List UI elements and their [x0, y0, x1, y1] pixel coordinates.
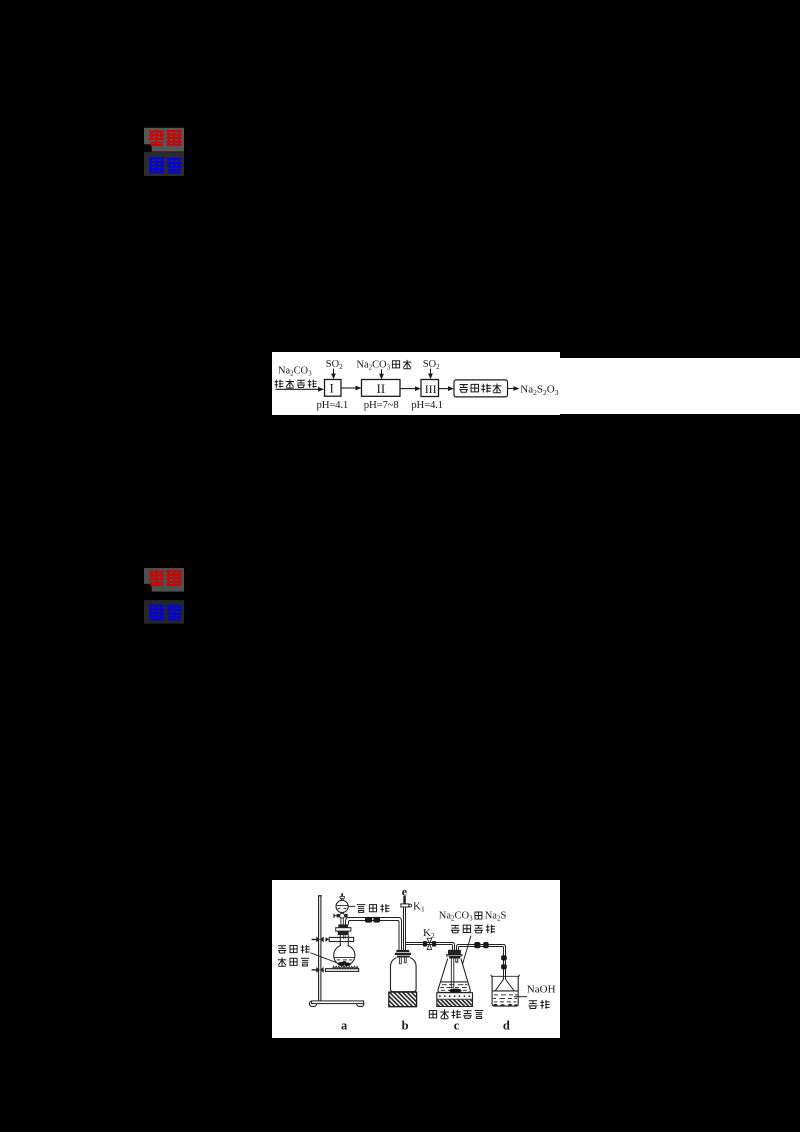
K1 knob — [409, 904, 412, 907]
clamp 1 wedge — [326, 937, 330, 942]
magnetic stirrer box — [437, 993, 473, 1007]
SO2 down arrow 1 — [331, 369, 336, 380]
clamp 1 stub — [312, 939, 318, 941]
svg-text:d: d — [503, 1019, 510, 1033]
answer badge A1 (red) — [144, 128, 184, 152]
flask a neck — [340, 935, 348, 946]
sodium sulfite solid in flask — [338, 961, 351, 966]
beads on outlet tube — [474, 942, 489, 948]
funnel stopcock — [333, 913, 347, 918]
arrow III to crystallize box — [439, 386, 455, 391]
svg-text:pH=4.1: pH=4.1 — [411, 399, 443, 411]
flask a stopper — [336, 924, 351, 935]
dropping funnel bulb — [336, 900, 348, 912]
iron stand base bar — [312, 1001, 364, 1004]
apparatus panel — [272, 880, 560, 1038]
clamp 1 bowtie — [316, 937, 323, 943]
svg-text:c: c — [454, 1019, 460, 1033]
crystallization-dehydration box — [454, 380, 508, 397]
K2 valve bowtie — [427, 938, 432, 949]
arrow I to II — [341, 386, 362, 391]
beaker sediment marks — [494, 1004, 518, 1006]
e tube down to bottle — [404, 907, 406, 951]
svg-text:NaOH: NaOH — [527, 983, 556, 995]
flask c liquid — [440, 982, 467, 990]
bottle b stopper — [395, 950, 411, 958]
feed arrow into box I — [276, 387, 325, 392]
SO2 down arrow 2 — [428, 369, 433, 380]
svg-text:Na2CO3: Na2CO3 — [439, 911, 473, 923]
K1 plug stem — [403, 896, 406, 904]
NaOH pointer line — [514, 996, 527, 998]
beaker d — [490, 975, 520, 1006]
beaker d liquid — [492, 991, 518, 1002]
svg-text:b: b — [402, 1019, 409, 1033]
K1 stopcock bar — [401, 904, 409, 907]
label sodium-sulfite line2 — [278, 957, 309, 966]
gauze sawtooth — [332, 966, 358, 969]
arrow II to III — [400, 386, 421, 391]
K2 valve beads — [423, 941, 436, 947]
clamp 2 bowtie — [316, 967, 323, 973]
box I — [325, 380, 342, 397]
flask c stopper — [447, 950, 462, 959]
bottle b tube stubs — [399, 958, 406, 964]
label Na2CO3 saturated solution — [274, 365, 316, 388]
conc-sulfuric-acid label — [357, 904, 389, 912]
long tube into liquid — [451, 958, 454, 987]
pointer to flask solid — [311, 953, 342, 965]
svg-text:pH=7~8: pH=7~8 — [364, 399, 399, 411]
analysis badge B2 (blue) — [144, 600, 184, 624]
iron stand right foot — [357, 1001, 364, 1006]
gauze plate — [326, 969, 359, 972]
clamp 1 bar — [329, 937, 353, 941]
anti-suckback funnel — [495, 979, 514, 990]
bottle b body — [391, 958, 417, 992]
tube connector beads — [365, 917, 380, 923]
stirrer label — [429, 1010, 483, 1019]
Na2CO3 down arrow — [379, 369, 384, 379]
mixed solution label — [439, 911, 507, 934]
dropping funnel knob — [340, 893, 345, 901]
iron stand rod — [318, 896, 322, 1001]
svg-text:I: I — [330, 381, 334, 396]
stir bar — [449, 989, 461, 993]
svg-text:pH=4.1: pH=4.1 — [317, 399, 349, 411]
analysis badge B1 (blue) — [144, 152, 184, 176]
flowchart panel — [272, 352, 800, 415]
funnel liquid line — [336, 906, 348, 909]
arrow to product — [508, 386, 520, 391]
pointer into flask c — [456, 936, 471, 987]
flask c outlet tube to beaker — [457, 945, 506, 980]
K2 branch tube to flask c — [406, 943, 455, 951]
flask a liquid — [335, 957, 355, 960]
clamp 2 stub — [312, 969, 318, 971]
svg-text:Na2S2O3: Na2S2O3 — [520, 384, 558, 397]
label Na2CO3 solid — [357, 359, 412, 371]
beads on beaker downtube — [501, 955, 507, 969]
round-bottom flask a — [334, 945, 355, 966]
label sodium-sulfite line1 — [278, 945, 310, 953]
svg-text:a: a — [341, 1019, 348, 1033]
svg-text:III: III — [425, 382, 437, 396]
answer badge A2 (red) — [144, 568, 184, 592]
flask a delivery tube — [346, 918, 402, 951]
iron stand left foot — [310, 1001, 317, 1006]
conc-sulfuric-acid label line — [348, 905, 355, 907]
svg-text:II: II — [377, 381, 386, 396]
svg-text:Na2S: Na2S — [485, 911, 507, 923]
flask a neck-join erase — [341, 944, 348, 948]
flask c cone — [438, 959, 471, 993]
funnel stem to stopper — [341, 918, 343, 925]
box III — [421, 380, 439, 397]
svg-text:Na2CO3: Na2CO3 — [278, 365, 312, 377]
funnel stem tip inside neck — [344, 935, 346, 939]
box II — [362, 380, 401, 397]
funnel lower stem — [341, 912, 343, 914]
solution label — [529, 1000, 550, 1009]
svg-text:Na2CO3: Na2CO3 — [357, 359, 391, 371]
bottle b hatched base — [389, 992, 417, 1007]
short stub in flask c — [455, 958, 458, 962]
